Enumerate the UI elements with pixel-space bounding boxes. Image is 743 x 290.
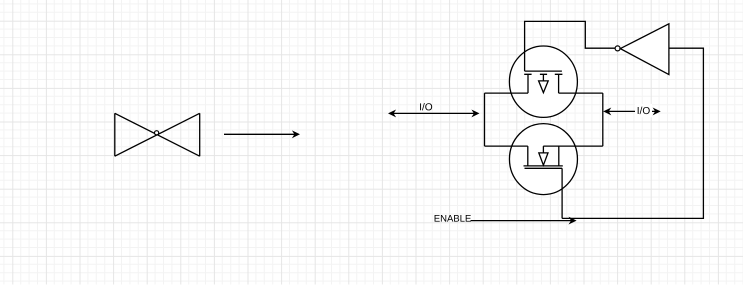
transistor Q2 (NMOS) internals: [524, 146, 563, 168]
arrow from symbol to circuit: [224, 130, 300, 138]
transmission gate body rectangle: [485, 93, 603, 146]
wire from Q1 gate to inverter output: [525, 21, 615, 71]
inverter U1: [620, 24, 669, 75]
wire from inverter input down to ENABLE net: [562, 48, 703, 218]
transistor Q1 (PMOS) internals: [524, 71, 562, 93]
ENABLE net arrow: [471, 217, 577, 225]
net label ENABLE: [435, 215, 471, 222]
transistor Q2 (NMOS) body circle: [509, 124, 577, 195]
right I/O label: [635, 104, 652, 117]
transmission gate symbol (bowtie): [115, 113, 200, 156]
body rectangle top and bottom edges with source/drain leads: [485, 93, 603, 146]
transistor Q1 (PMOS) body circle: [509, 46, 577, 117]
wire from Q2 gate down to ENABLE net: [561, 168, 563, 218]
inverter U1 bubble: [615, 46, 620, 51]
right I/O double arrow: [603, 107, 661, 115]
left I/O double arrow: [388, 109, 480, 117]
left I/O label: [420, 103, 432, 110]
